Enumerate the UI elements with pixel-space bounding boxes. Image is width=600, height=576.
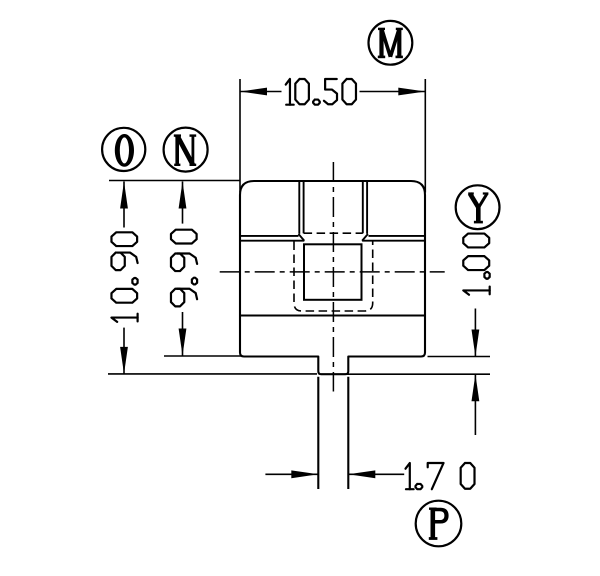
- dimension text 1.00: [463, 234, 489, 295]
- dim line 10.50 right part: [360, 91, 426, 93]
- balloon label O: [102, 128, 145, 171]
- dim line 9.90 upper stub: [182, 182, 184, 224]
- ext line left of 10.50: [239, 79, 241, 193]
- stem left side: [317, 377, 319, 489]
- dim line 9.90 lower stub: [182, 312, 184, 356]
- arrow down 1.00: [472, 330, 480, 357]
- arrow left 1.70: [348, 470, 375, 478]
- left chamfer: [299, 234, 305, 241]
- vertical centerline: [332, 162, 334, 392]
- dim line 10.90 upper stub: [123, 182, 125, 228]
- dimension text 10.50: [286, 79, 356, 105]
- ext line top for 1.00: [428, 356, 491, 358]
- ext line bottom for 1.00: [345, 373, 490, 375]
- slot inner-left wall: [303, 181, 305, 233]
- arrow right 1.70: [291, 470, 318, 478]
- ext line bottom for 10.90: [108, 373, 317, 375]
- dim line 10.90 lower stub: [123, 328, 125, 374]
- arrow down 9.90: [179, 329, 187, 356]
- balloon label M: [369, 21, 413, 65]
- right chamfer: [362, 234, 368, 241]
- slot inner-right wall: [362, 181, 364, 233]
- inner square hole: [304, 244, 362, 299]
- ext line top for 10.90 and 9.90: [109, 180, 240, 182]
- ext line bottom for 9.90: [164, 355, 242, 357]
- balloon label Y: [456, 185, 500, 229]
- body outline: [240, 181, 425, 374]
- arrow down 10.90: [120, 347, 128, 374]
- step line across body: [240, 315, 425, 317]
- balloon label N: [164, 128, 208, 172]
- dim line 1.70 left: [265, 473, 318, 475]
- arrow up 10.90: [120, 182, 128, 209]
- ext line right of 10.50: [424, 79, 426, 193]
- slot outer-right wall: [366, 181, 368, 234]
- shelf line upper-left: [240, 235, 299, 237]
- dim line 10.50 left part: [240, 91, 282, 93]
- dimension text 10.90: [111, 232, 137, 322]
- arrow up 9.90: [179, 182, 187, 209]
- dimension text 9.90: [171, 230, 197, 307]
- dimension text 1.70: [406, 463, 475, 489]
- arrow up 1.00: [472, 374, 480, 401]
- dim line 1.70 right: [348, 473, 404, 475]
- shelf line lower-left: [240, 240, 304, 242]
- arrow left 10.50: [240, 88, 267, 96]
- hidden slot top edge: [304, 232, 363, 234]
- shelf line upper-right: [369, 235, 426, 237]
- balloon label P: [416, 501, 462, 547]
- slot outer-left wall: [298, 181, 300, 234]
- hidden slot sides and bottom: [294, 242, 373, 312]
- horizontal centerline: [220, 271, 445, 273]
- shelf line lower-right: [362, 240, 425, 242]
- arrow right 10.50: [398, 88, 425, 96]
- dim line 1.00 upper stub: [474, 309, 476, 357]
- stem right side: [347, 377, 349, 489]
- dim line 1.00 lower stub: [474, 374, 476, 435]
